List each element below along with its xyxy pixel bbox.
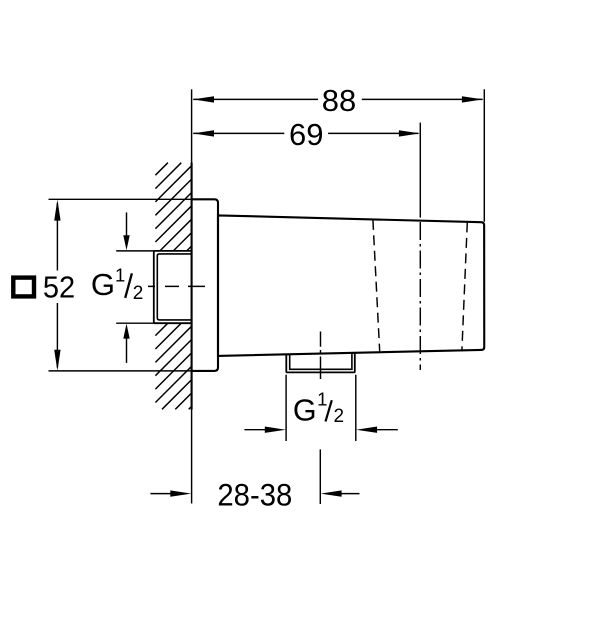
outlet G1/2 right arrow (377, 429, 398, 431)
dimension 52 arrowheads (54, 200, 60, 221)
square-section symbol (13, 278, 34, 297)
dimension 88 line (193, 98, 318, 100)
inlet connector inner outline (157, 254, 191, 320)
svg-text:2: 2 (133, 283, 144, 304)
outlet centerline (dash-dot) (320, 332, 322, 380)
svg-text:1: 1 (115, 264, 125, 285)
svg-text:G: G (293, 394, 317, 428)
hidden edge (dashed, left) (373, 220, 380, 352)
flange wall plate (192, 199, 218, 371)
outlet G1/2 left extension line (285, 375, 287, 441)
holder centerline (dash-dot) (419, 222, 421, 370)
outlet connector outer outline (286, 352, 355, 372)
dimension 69 extension line (right, solid part) (419, 123, 421, 218)
dimension 88 arrowheads (193, 96, 214, 102)
G1/2 inlet top extension line (116, 250, 154, 252)
hidden edge (dashed, right) (462, 222, 467, 350)
wall hatching (155, 163, 191, 410)
dimension 88 extension line (right) (483, 89, 485, 222)
G1/2 inlet bottom arrow (126, 339, 128, 363)
svg-text:G: G (91, 267, 115, 302)
dimension 52 extension line (bottom) (49, 370, 192, 372)
outlet G1/2 left arrow (244, 429, 266, 431)
G1/2 inlet bottom extension line (116, 322, 154, 324)
G1/2 inlet top arrow (126, 212, 128, 237)
28-38 right arrow (342, 493, 360, 495)
svg-text:52: 52 (43, 271, 75, 305)
28-38 right extension line (319, 449, 321, 504)
wall extension line (top) (191, 89, 193, 162)
svg-text:88: 88 (322, 83, 356, 118)
fraction slash (bottom label) (326, 400, 332, 421)
wall extension line (bottom) (191, 410, 193, 504)
svg-text:1: 1 (317, 389, 327, 410)
wall surface line (191, 163, 193, 410)
dimension 52 extension line (top) (49, 198, 192, 200)
fraction slash (left label) (125, 273, 132, 298)
28-38 left arrow (150, 493, 172, 495)
svg-text:69: 69 (289, 117, 323, 152)
svg-text:28-38: 28-38 (217, 476, 292, 512)
svg-text:2: 2 (334, 406, 345, 427)
outlet connector inner outline (290, 353, 352, 370)
body cone outline (218, 215, 484, 356)
dimension 69 arrowheads (193, 130, 214, 136)
dimension 69 line (193, 132, 284, 134)
outlet G1/2 right extension line (355, 375, 357, 441)
inlet centerline (148, 285, 205, 287)
dimension 52 line (56, 203, 58, 271)
inlet connector outer outline (154, 251, 192, 323)
